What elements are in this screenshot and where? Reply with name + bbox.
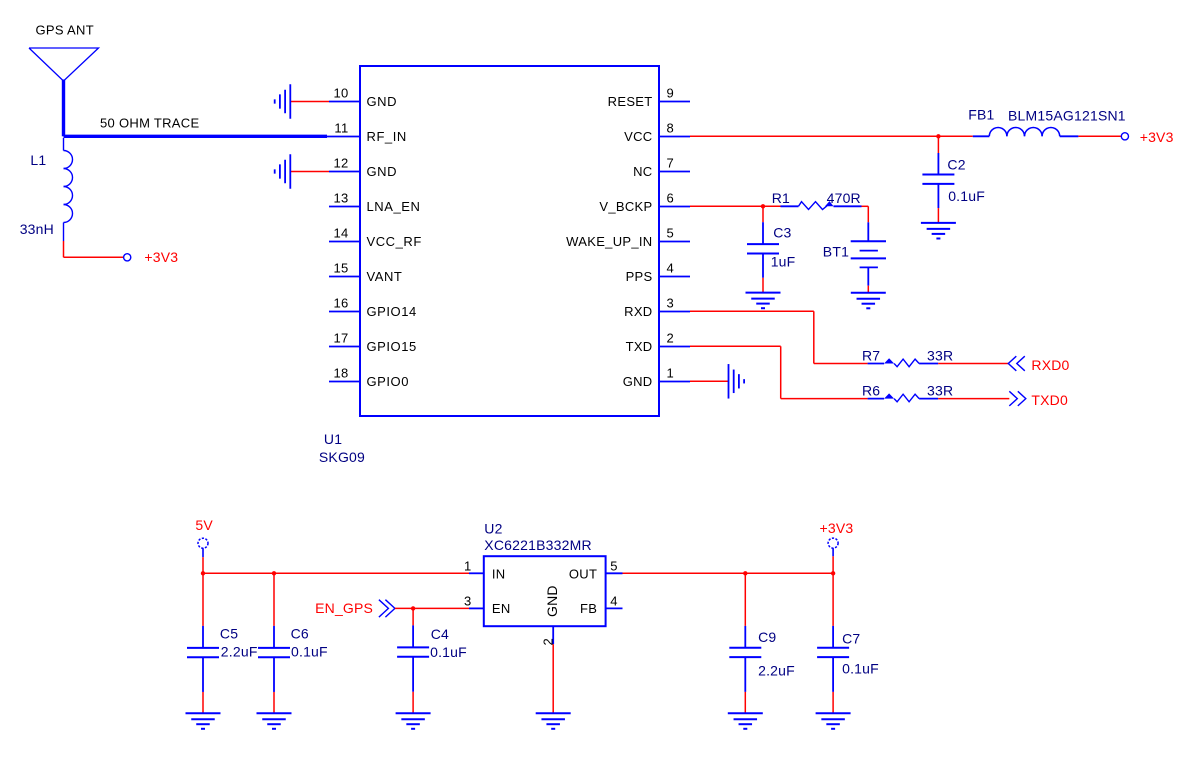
svg-text:1: 1 <box>464 558 472 573</box>
svg-text:U1: U1 <box>324 431 342 447</box>
svg-text:15: 15 <box>333 260 348 275</box>
svg-text:+3V3: +3V3 <box>144 249 178 265</box>
svg-text:12: 12 <box>333 155 348 170</box>
svg-text:C7: C7 <box>842 630 860 646</box>
svg-text:18: 18 <box>333 365 348 380</box>
svg-text:10: 10 <box>333 85 348 100</box>
svg-text:RXD0: RXD0 <box>1031 357 1069 373</box>
svg-text:PPS: PPS <box>626 269 653 284</box>
svg-text:1uF: 1uF <box>771 254 796 270</box>
svg-text:2: 2 <box>667 330 675 345</box>
svg-text:IN: IN <box>492 566 506 581</box>
svg-text:50 OHM TRACE: 50 OHM TRACE <box>100 116 199 131</box>
svg-text:3: 3 <box>667 295 675 310</box>
svg-text:FB: FB <box>580 601 597 616</box>
svg-text:16: 16 <box>333 295 348 310</box>
svg-text:0.1uF: 0.1uF <box>842 660 879 676</box>
svg-text:33R: 33R <box>927 383 953 399</box>
svg-text:33R: 33R <box>927 348 953 364</box>
svg-text:2.2uF: 2.2uF <box>221 644 258 660</box>
svg-text:5: 5 <box>667 225 675 240</box>
svg-text:2.2uF: 2.2uF <box>758 663 795 679</box>
svg-text:GPIO14: GPIO14 <box>367 304 417 319</box>
svg-text:+3V3: +3V3 <box>820 520 854 536</box>
svg-text:17: 17 <box>333 330 348 345</box>
svg-text:BT1: BT1 <box>823 243 849 259</box>
svg-text:7: 7 <box>667 155 675 170</box>
svg-text:OUT: OUT <box>569 566 597 581</box>
svg-text:8: 8 <box>667 120 675 135</box>
svg-text:GPIO0: GPIO0 <box>367 374 410 389</box>
svg-text:R1: R1 <box>772 190 790 206</box>
svg-text:9: 9 <box>667 85 675 100</box>
svg-text:2: 2 <box>540 638 555 646</box>
svg-text:EN: EN <box>492 601 511 616</box>
svg-text:TXD: TXD <box>626 339 653 354</box>
svg-text:RESET: RESET <box>608 94 653 109</box>
svg-text:VANT: VANT <box>367 269 403 284</box>
svg-text:RF_IN: RF_IN <box>367 129 407 144</box>
svg-text:4: 4 <box>610 593 618 608</box>
svg-text:XC6221B332MR: XC6221B332MR <box>484 537 591 553</box>
svg-text:0.1uF: 0.1uF <box>291 644 328 660</box>
svg-text:EN_GPS: EN_GPS <box>315 600 373 616</box>
svg-text:11: 11 <box>334 120 348 135</box>
svg-text:NC: NC <box>633 164 652 179</box>
svg-text:GND: GND <box>367 94 398 109</box>
svg-text:TXD0: TXD0 <box>1031 392 1068 408</box>
svg-text:C6: C6 <box>291 626 309 642</box>
svg-text:0.1uF: 0.1uF <box>948 188 985 204</box>
svg-text:33nH: 33nH <box>20 221 54 237</box>
svg-text:470R: 470R <box>827 190 861 206</box>
svg-text:FB1: FB1 <box>968 107 994 123</box>
svg-text:3: 3 <box>464 593 472 608</box>
svg-text:5V: 5V <box>195 517 213 533</box>
svg-text:GND: GND <box>544 585 560 617</box>
svg-text:GND: GND <box>367 164 398 179</box>
svg-text:GPS ANT: GPS ANT <box>36 22 94 37</box>
svg-text:V_BCKP: V_BCKP <box>599 199 652 214</box>
svg-text:C2: C2 <box>947 157 965 173</box>
svg-text:1: 1 <box>667 365 675 380</box>
svg-text:4: 4 <box>667 260 675 275</box>
svg-text:U2: U2 <box>484 521 502 537</box>
svg-text:0.1uF: 0.1uF <box>430 644 467 660</box>
svg-text:6: 6 <box>667 190 675 205</box>
svg-text:VCC_RF: VCC_RF <box>367 234 422 249</box>
svg-text:R6: R6 <box>862 383 880 399</box>
svg-text:C4: C4 <box>431 626 449 642</box>
svg-text:L1: L1 <box>30 152 46 168</box>
svg-text:C5: C5 <box>220 626 238 642</box>
svg-text:R7: R7 <box>862 348 880 364</box>
svg-text:GND: GND <box>623 374 653 389</box>
svg-text:5: 5 <box>610 558 618 573</box>
svg-text:WAKE_UP_IN: WAKE_UP_IN <box>566 234 652 249</box>
svg-text:LNA_EN: LNA_EN <box>367 199 421 214</box>
svg-text:14: 14 <box>333 225 348 240</box>
svg-text:SKG09: SKG09 <box>319 449 365 465</box>
svg-text:GPIO15: GPIO15 <box>367 339 417 354</box>
svg-text:VCC: VCC <box>624 129 652 144</box>
svg-text:C3: C3 <box>773 225 791 241</box>
svg-text:+3V3: +3V3 <box>1140 129 1174 145</box>
svg-text:C9: C9 <box>758 629 776 645</box>
svg-text:RXD: RXD <box>624 304 652 319</box>
svg-text:13: 13 <box>333 190 348 205</box>
svg-text:BLM15AG121SN1: BLM15AG121SN1 <box>1008 108 1126 124</box>
